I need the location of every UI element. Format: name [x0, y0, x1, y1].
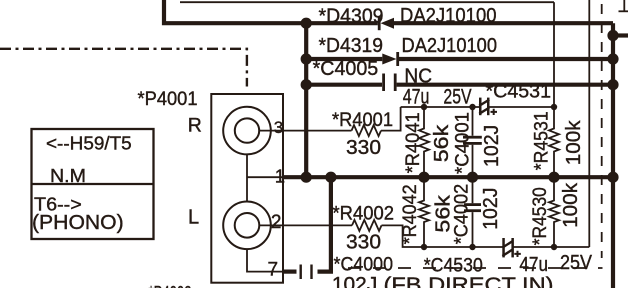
RCA jack L inner [235, 213, 260, 238]
RCA jack R outer [223, 107, 271, 155]
svg-text:(FB DIRECT IN): (FB DIRECT IN) [384, 275, 554, 289]
wire: pin1 shield to bus [247, 176, 283, 178]
svg-text:1: 1 [275, 165, 285, 186]
diode D4319 (pointing right) [382, 52, 399, 66]
svg-text:102J: 102J [480, 125, 503, 167]
svg-text:*R4041: *R4041 [402, 112, 424, 173]
svg-text:DA2J10100: DA2J10100 [400, 5, 497, 27]
wire: right vertical bus [611, 23, 615, 288]
resistor R4001 [352, 125, 382, 136]
svg-text:100k: 100k [559, 182, 582, 228]
resistor R4042 [419, 177, 429, 247]
capacitor C4005 [382, 74, 396, 92]
wire: row1 right segment with corner and stub to right edge [394, 21, 613, 25]
svg-text:*P4001: *P4001 [138, 89, 198, 110]
capacitor C4530 electrolytic [502, 238, 521, 257]
svg-text:*C4002: *C4002 [451, 184, 473, 245]
wire: R4002 to bottom rail [382, 225, 503, 247]
svg-text:*R4042: *R4042 [399, 184, 421, 244]
svg-text:*C4000: *C4000 [334, 253, 394, 275]
junction dots on R top rail [421, 104, 427, 110]
junction dots on ground bus [325, 172, 336, 183]
RCA jack R inner [235, 118, 259, 142]
svg-text:25V: 25V [560, 252, 593, 274]
wire: pin7 from L jack [247, 249, 283, 272]
wire: thin net from top rail up to top edge line [553, 2, 555, 107]
wire: horizontal ground bus [283, 175, 613, 179]
junction dots on L bottom rail [421, 244, 427, 250]
wire: left vertical bus [304, 23, 308, 177]
wire: L bottom rail right part [513, 246, 589, 248]
svg-text:330: 330 [346, 231, 381, 253]
wire: thin net right vertical to top edge [588, 0, 590, 247]
capacitor C4001 [463, 107, 482, 177]
svg-text:100k: 100k [562, 120, 585, 166]
svg-text:102J: 102J [479, 188, 502, 230]
svg-text:*D4309: *D4309 [319, 5, 384, 27]
wire: jack shield link [246, 154, 248, 201]
svg-text:56k: 56k [430, 124, 453, 162]
svg-text:*R4001: *R4001 [332, 109, 393, 131]
svg-text:25V: 25V [443, 85, 471, 108]
wire: thin net along top edge [180, 1, 554, 3]
wire stub top right corner [619, 10, 628, 12]
svg-text:*D4319: *D4319 [319, 35, 384, 57]
svg-text:R: R [188, 114, 202, 136]
svg-text:DA2J10100: DA2J10100 [402, 35, 498, 57]
svg-text:(PHONO): (PHONO) [32, 212, 124, 234]
diode D4309 (pointing left) [378, 16, 394, 30]
svg-text:330: 330 [346, 137, 381, 159]
wire row2 [306, 57, 382, 61]
svg-text:7: 7 [268, 260, 279, 281]
resistor R4002 [352, 220, 382, 231]
RCA jack L outer [223, 202, 271, 250]
svg-text:*C4005: *C4005 [313, 58, 379, 80]
svg-text:L: L [188, 207, 199, 229]
wire: C4000 to ground bus [318, 177, 331, 271]
svg-text:*P4002: *P4002 [149, 284, 192, 289]
wire: R4001 to top rail [381, 107, 401, 131]
wire: R channel top rail [401, 106, 480, 108]
svg-text:102J: 102J [332, 274, 377, 288]
svg-text:*R4002: *R4002 [333, 203, 395, 225]
wire: thick feed from top edge into row 1 [164, 0, 378, 23]
svg-text:NC: NC [404, 65, 432, 87]
svg-text:*C4001: *C4001 [452, 112, 474, 174]
page boundary dashed horizontal line (bottom right) [348, 267, 603, 269]
resistor R4041 [419, 107, 429, 177]
capacitor C4531 electrolytic [479, 98, 497, 116]
wire: pin2 to R4002 [259, 224, 352, 226]
svg-text:*C4530: *C4530 [424, 255, 483, 277]
wire: pin7 thick stub [283, 270, 297, 274]
svg-text:*C4531: *C4531 [486, 82, 552, 103]
wire: pin3 to R4001 [259, 130, 351, 132]
page boundary dashed vertical line (right) [601, 4, 603, 258]
resistor R4531 [549, 107, 559, 177]
svg-text:*R4530: *R4530 [529, 187, 551, 245]
junction dots on right bus [607, 30, 618, 41]
note box [32, 129, 154, 239]
capacitor C4000 [300, 265, 313, 280]
svg-text:<--H59/T5: <--H59/T5 [46, 132, 132, 153]
connector P4001 box [211, 94, 283, 283]
wire row3 [306, 83, 382, 87]
junction dots on left bus [301, 18, 312, 29]
svg-text:N.M: N.M [50, 165, 86, 186]
svg-text:*R4531: *R4531 [530, 111, 552, 170]
resistor R4530 [549, 177, 559, 247]
svg-text:3: 3 [274, 118, 283, 137]
page boundary dash-dot line (left) [0, 49, 247, 87]
capacitor C4002 [464, 177, 481, 247]
svg-text:2: 2 [271, 212, 282, 233]
svg-text:47u: 47u [519, 254, 548, 276]
